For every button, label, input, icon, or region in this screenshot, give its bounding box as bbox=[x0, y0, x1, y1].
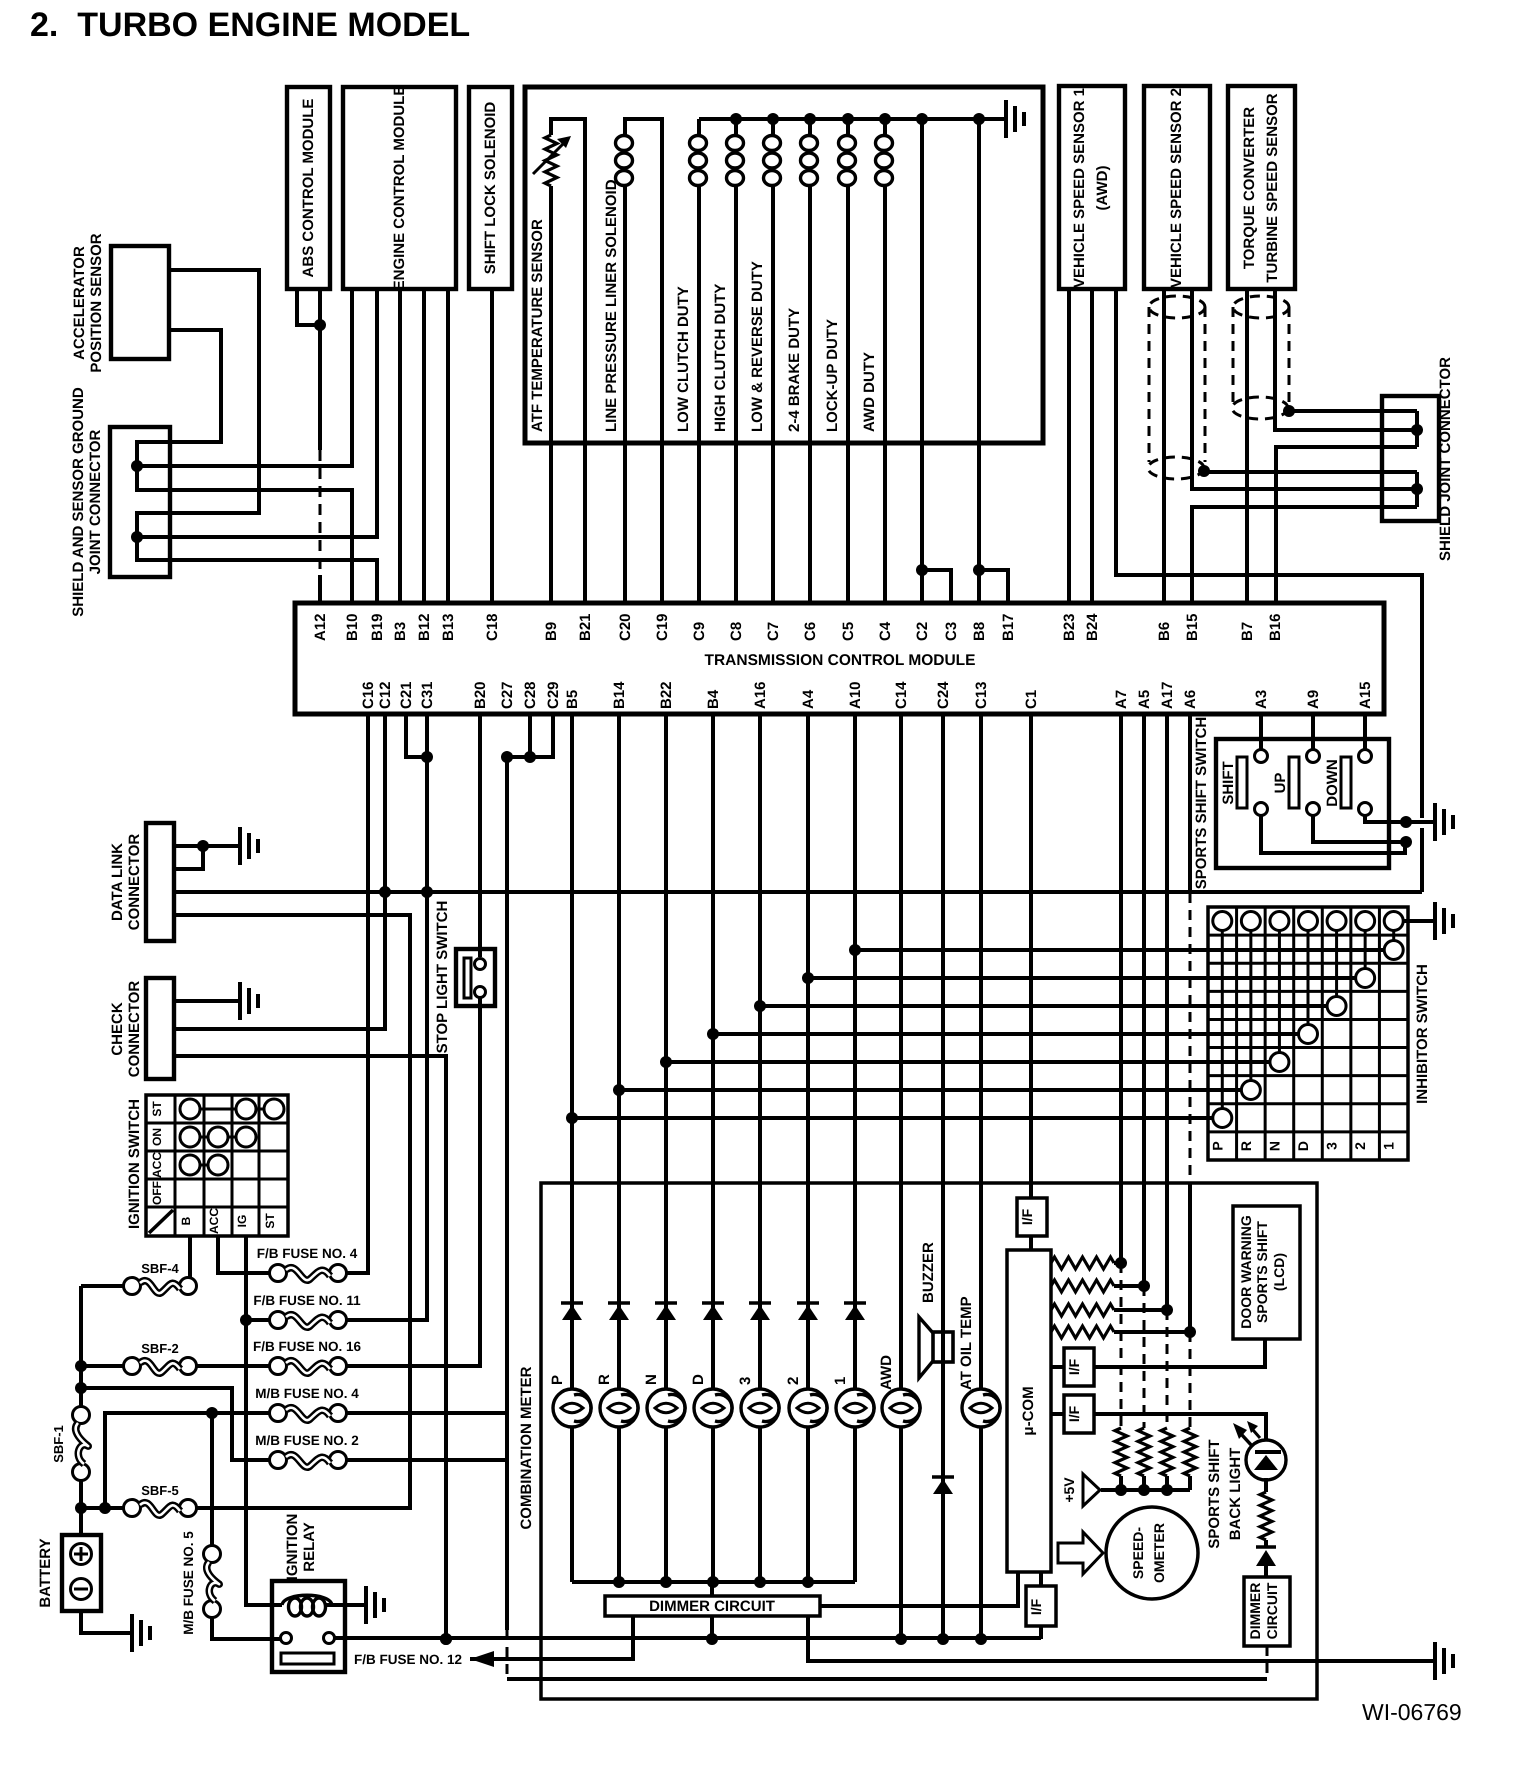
svg-text:DATA LINK: DATA LINK bbox=[109, 843, 126, 921]
svg-text:A3: A3 bbox=[1253, 690, 1270, 709]
svg-text:TURBINE SPEED SENSOR: TURBINE SPEED SENSOR bbox=[1264, 93, 1281, 282]
svg-text:ENGINE CONTROL MODULE: ENGINE CONTROL MODULE bbox=[391, 86, 408, 291]
svg-text:DOWN: DOWN bbox=[1324, 759, 1341, 807]
svg-text:R: R bbox=[596, 1374, 613, 1385]
svg-text:VEHICLE SPEED SENSOR 1: VEHICLE SPEED SENSOR 1 bbox=[1071, 88, 1088, 288]
svg-text:N: N bbox=[1266, 1141, 1282, 1151]
svg-text:ST: ST bbox=[263, 1213, 277, 1229]
svg-text:D: D bbox=[690, 1374, 707, 1385]
svg-text:A15: A15 bbox=[1357, 681, 1374, 709]
svg-text:WI-06769: WI-06769 bbox=[1362, 1699, 1462, 1725]
svg-text:C16: C16 bbox=[360, 681, 377, 709]
svg-text:B16: B16 bbox=[1267, 613, 1284, 641]
svg-text:B5: B5 bbox=[564, 690, 581, 709]
svg-text:POSITION SENSOR: POSITION SENSOR bbox=[88, 233, 105, 372]
svg-text:ST: ST bbox=[150, 1101, 164, 1117]
svg-text:3: 3 bbox=[1324, 1142, 1340, 1150]
svg-text:(AWD): (AWD) bbox=[1094, 166, 1111, 211]
svg-text:C24: C24 bbox=[935, 681, 952, 709]
svg-text:B9: B9 bbox=[543, 622, 560, 641]
svg-text:INHIBITOR SWITCH: INHIBITOR SWITCH bbox=[1414, 964, 1431, 1104]
svg-text:A17: A17 bbox=[1159, 681, 1176, 709]
svg-text:ACC: ACC bbox=[150, 1152, 164, 1178]
svg-text:C3: C3 bbox=[943, 622, 960, 641]
svg-text:C31: C31 bbox=[419, 681, 436, 709]
svg-text:M/B FUSE NO. 5: M/B FUSE NO. 5 bbox=[181, 1531, 196, 1635]
svg-text:HIGH CLUTCH DUTY: HIGH CLUTCH DUTY bbox=[712, 284, 729, 432]
svg-text:A4: A4 bbox=[800, 689, 817, 709]
svg-text:I/F: I/F bbox=[1028, 1598, 1044, 1615]
svg-text:B17: B17 bbox=[1000, 613, 1017, 641]
svg-text:2: 2 bbox=[1352, 1142, 1368, 1150]
svg-text:TORQUE CONVERTER: TORQUE CONVERTER bbox=[1241, 107, 1258, 269]
svg-text:ACCELERATOR: ACCELERATOR bbox=[71, 246, 88, 360]
svg-text:B14: B14 bbox=[611, 681, 628, 709]
svg-text:C7: C7 bbox=[765, 622, 782, 641]
svg-text:C14: C14 bbox=[893, 681, 910, 709]
svg-text:C18: C18 bbox=[484, 613, 501, 641]
svg-text:I/F: I/F bbox=[1066, 1405, 1082, 1422]
svg-text:COMBINATION METER: COMBINATION METER bbox=[518, 1366, 535, 1529]
svg-text:A7: A7 bbox=[1113, 690, 1130, 709]
svg-text:DOOR WARNING: DOOR WARNING bbox=[1238, 1215, 1254, 1329]
svg-text:B20: B20 bbox=[472, 681, 489, 709]
svg-text:STOP LIGHT SWITCH: STOP LIGHT SWITCH bbox=[434, 901, 451, 1054]
svg-text:BACK LIGHT: BACK LIGHT bbox=[1227, 1448, 1244, 1541]
svg-text:F/B FUSE NO. 4: F/B FUSE NO. 4 bbox=[257, 1246, 358, 1261]
svg-text:ABS CONTROL MODULE: ABS CONTROL MODULE bbox=[300, 99, 317, 278]
svg-text:C21: C21 bbox=[398, 681, 415, 709]
svg-text:IGNITION: IGNITION bbox=[284, 1514, 301, 1581]
svg-text:SPORTS SHIFT: SPORTS SHIFT bbox=[1206, 1439, 1223, 1548]
svg-text:A16: A16 bbox=[752, 681, 769, 709]
svg-text:JOINT CONNECTOR: JOINT CONNECTOR bbox=[87, 429, 104, 574]
svg-text:SPORTS SHIFT: SPORTS SHIFT bbox=[1254, 1221, 1270, 1323]
svg-text:CIRCUIT: CIRCUIT bbox=[1264, 1582, 1280, 1639]
svg-text:OFF: OFF bbox=[150, 1181, 164, 1205]
svg-text:M/B FUSE NO. 2: M/B FUSE NO. 2 bbox=[255, 1433, 359, 1448]
svg-text:P: P bbox=[1209, 1141, 1225, 1150]
svg-text:CONNECTOR: CONNECTOR bbox=[126, 981, 143, 1078]
svg-text:M/B FUSE NO. 4: M/B FUSE NO. 4 bbox=[255, 1386, 359, 1401]
svg-text:CONNECTOR: CONNECTOR bbox=[126, 834, 143, 931]
svg-text:SHIFT: SHIFT bbox=[1220, 761, 1237, 804]
svg-text:2. TURBO ENGINE MODEL: 2. TURBO ENGINE MODEL bbox=[30, 6, 470, 44]
svg-text:ATF TEMPERATURE SENSOR: ATF TEMPERATURE SENSOR bbox=[529, 219, 546, 432]
svg-text:B19: B19 bbox=[369, 613, 386, 641]
svg-text:DIMMER CIRCUIT: DIMMER CIRCUIT bbox=[649, 1598, 775, 1615]
svg-text:B: B bbox=[179, 1216, 193, 1225]
svg-text:IGNITION SWITCH: IGNITION SWITCH bbox=[126, 1099, 143, 1229]
svg-text:D: D bbox=[1295, 1141, 1311, 1151]
svg-text:I/F: I/F bbox=[1019, 1208, 1035, 1225]
svg-text:R: R bbox=[1238, 1141, 1254, 1151]
svg-text:3: 3 bbox=[737, 1377, 754, 1385]
svg-text:B4: B4 bbox=[705, 689, 722, 709]
svg-text:I/F: I/F bbox=[1066, 1358, 1082, 1375]
svg-text:C20: C20 bbox=[617, 613, 634, 641]
svg-text:C5: C5 bbox=[840, 622, 857, 641]
svg-text:B12: B12 bbox=[416, 613, 433, 641]
svg-text:+5V: +5V bbox=[1061, 1477, 1077, 1503]
svg-text:LOW & REVERSE DUTY: LOW & REVERSE DUTY bbox=[749, 261, 766, 432]
svg-text:C1: C1 bbox=[1023, 690, 1040, 709]
svg-text:DIMMER: DIMMER bbox=[1247, 1583, 1263, 1640]
svg-text:B13: B13 bbox=[440, 613, 457, 641]
svg-text:B7: B7 bbox=[1239, 622, 1256, 641]
svg-text:OMETER: OMETER bbox=[1151, 1523, 1167, 1583]
svg-text:B10: B10 bbox=[344, 613, 361, 641]
svg-text:LOCK-UP DUTY: LOCK-UP DUTY bbox=[824, 319, 841, 432]
svg-text:A9: A9 bbox=[1305, 690, 1322, 709]
svg-text:B3: B3 bbox=[392, 622, 409, 641]
svg-text:B15: B15 bbox=[1184, 613, 1201, 641]
svg-text:TRANSMISSION CONTROL MODULE: TRANSMISSION CONTROL MODULE bbox=[705, 652, 976, 669]
svg-text:μ-COM: μ-COM bbox=[1020, 1386, 1037, 1435]
svg-text:C27: C27 bbox=[499, 681, 516, 709]
svg-text:ACC: ACC bbox=[207, 1208, 221, 1234]
svg-text:B23: B23 bbox=[1061, 613, 1078, 641]
svg-text:RELAY: RELAY bbox=[301, 1522, 318, 1571]
svg-text:SHIFT LOCK SOLENOID: SHIFT LOCK SOLENOID bbox=[482, 102, 499, 275]
svg-text:N: N bbox=[643, 1374, 660, 1385]
svg-text:C29: C29 bbox=[545, 681, 562, 709]
svg-text:F/B FUSE NO. 16: F/B FUSE NO. 16 bbox=[253, 1339, 362, 1354]
svg-text:2-4 BRAKE DUTY: 2-4 BRAKE DUTY bbox=[786, 308, 803, 432]
svg-text:LOW CLUTCH DUTY: LOW CLUTCH DUTY bbox=[675, 286, 692, 432]
svg-text:UP: UP bbox=[1272, 773, 1289, 794]
svg-text:C13: C13 bbox=[973, 681, 990, 709]
svg-text:SBF-4: SBF-4 bbox=[141, 1261, 179, 1276]
svg-text:C4: C4 bbox=[877, 621, 894, 641]
svg-text:BATTERY: BATTERY bbox=[37, 1538, 54, 1607]
svg-text:BUZZER: BUZZER bbox=[920, 1242, 937, 1303]
svg-text:VEHICLE SPEED SENSOR 2: VEHICLE SPEED SENSOR 2 bbox=[1168, 88, 1185, 288]
svg-text:SHIELD AND SENSOR GROUND: SHIELD AND SENSOR GROUND bbox=[70, 387, 87, 617]
svg-text:C28: C28 bbox=[522, 681, 539, 709]
svg-text:1: 1 bbox=[1381, 1142, 1397, 1150]
svg-text:AWD DUTY: AWD DUTY bbox=[861, 352, 878, 432]
svg-text:SBF-5: SBF-5 bbox=[141, 1483, 179, 1498]
svg-text:A12: A12 bbox=[312, 613, 329, 641]
svg-text:B22: B22 bbox=[658, 681, 675, 709]
svg-text:SPORTS SHIFT SWITCH: SPORTS SHIFT SWITCH bbox=[1193, 717, 1210, 890]
svg-text:A5: A5 bbox=[1136, 690, 1153, 709]
svg-text:C19: C19 bbox=[654, 613, 671, 641]
svg-text:SPEED-: SPEED- bbox=[1130, 1527, 1146, 1579]
svg-text:SBF-2: SBF-2 bbox=[141, 1341, 179, 1356]
svg-text:B6: B6 bbox=[1156, 622, 1173, 641]
svg-text:C6: C6 bbox=[802, 622, 819, 641]
svg-text:LINE PRESSURE LINER SOLENOID: LINE PRESSURE LINER SOLENOID bbox=[603, 179, 620, 432]
svg-text:IG: IG bbox=[235, 1215, 249, 1228]
svg-text:2: 2 bbox=[785, 1377, 802, 1385]
svg-text:ON: ON bbox=[150, 1128, 164, 1146]
svg-text:C9: C9 bbox=[691, 622, 708, 641]
svg-text:B8: B8 bbox=[971, 622, 988, 641]
svg-text:AT OIL TEMP: AT OIL TEMP bbox=[958, 1296, 975, 1390]
svg-text:C8: C8 bbox=[728, 622, 745, 641]
svg-text:C12: C12 bbox=[377, 681, 394, 709]
svg-text:AWD: AWD bbox=[878, 1355, 895, 1390]
svg-text:A6: A6 bbox=[1182, 690, 1199, 709]
svg-text:SBF-1: SBF-1 bbox=[51, 1425, 66, 1463]
svg-text:F/B FUSE NO. 12: F/B FUSE NO. 12 bbox=[354, 1652, 462, 1667]
svg-text:(LCD): (LCD) bbox=[1271, 1253, 1287, 1291]
svg-text:B24: B24 bbox=[1084, 613, 1101, 641]
svg-text:CHECK: CHECK bbox=[109, 1002, 126, 1056]
svg-text:P: P bbox=[549, 1375, 566, 1385]
svg-text:F/B FUSE NO. 11: F/B FUSE NO. 11 bbox=[253, 1293, 361, 1308]
svg-text:B21: B21 bbox=[577, 613, 594, 641]
svg-text:C2: C2 bbox=[914, 622, 931, 641]
svg-text:1: 1 bbox=[832, 1377, 849, 1385]
svg-text:A10: A10 bbox=[847, 681, 864, 709]
svg-text:SHIELD JOINT CONNECTOR: SHIELD JOINT CONNECTOR bbox=[1437, 357, 1454, 561]
